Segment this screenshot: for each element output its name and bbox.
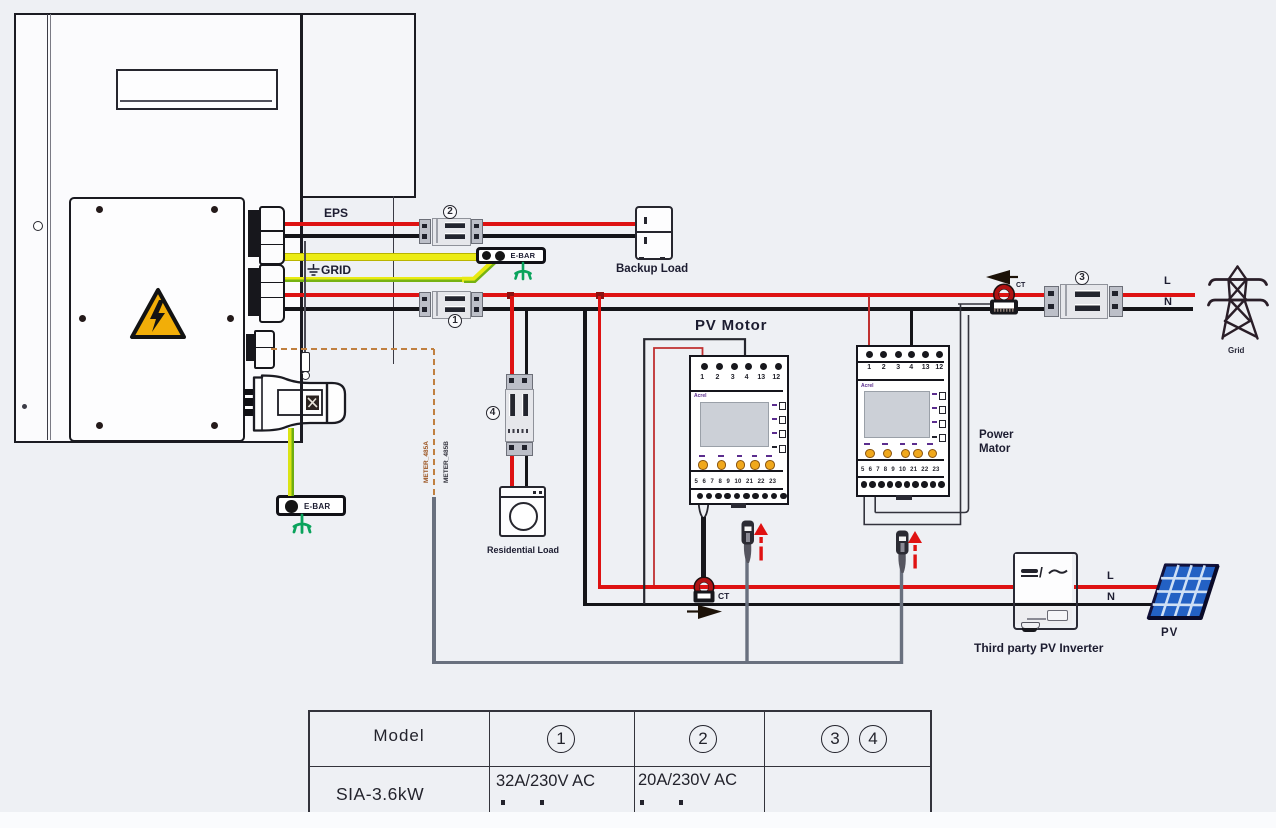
wire EPS N black segment 1 bbox=[282, 234, 421, 238]
display slot bbox=[116, 69, 278, 110]
red drop to breaker 4 bbox=[510, 296, 513, 374]
GRID port label with pe symbol bbox=[307, 264, 320, 276]
third party pv inverter bottom section fill bbox=[1015, 607, 1072, 624]
EPS port label bbox=[324, 206, 348, 220]
junction dot red B bbox=[596, 292, 604, 300]
inverter black foot bbox=[1022, 628, 1037, 632]
breaker Q2 (EPS) bbox=[419, 218, 482, 244]
pv meter loop wire black thin bbox=[643, 338, 747, 605]
wire GRID PE green-yellow diagonal up to e-bar bbox=[460, 250, 508, 286]
pv meter label bbox=[695, 317, 767, 334]
red arrow at plug 1 bbox=[753, 522, 769, 562]
third party pv inverter box bbox=[1013, 552, 1078, 630]
GRID ac connector bbox=[248, 268, 259, 316]
breaker Q1 (GRID) bbox=[419, 291, 482, 317]
wire EPS N black segment 2 to backup load bbox=[481, 234, 637, 238]
breaker Q4 (residential, vertical) bbox=[505, 374, 533, 454]
dongle connector body bbox=[252, 374, 348, 433]
junction box screws bbox=[96, 206, 103, 213]
red bottom bus pv inverter to panel bbox=[1074, 585, 1158, 589]
ground symbol at e-bar 1 bbox=[513, 263, 535, 280]
e-bar 1 bbox=[476, 247, 546, 264]
ground symbol at e-bar 2 bbox=[291, 515, 313, 534]
ct 2 label bbox=[1016, 282, 1025, 289]
black wire breaker 4 to residential load bbox=[525, 452, 529, 487]
comm wire gray bottom bus bbox=[432, 661, 903, 664]
bottom white strip bbox=[0, 812, 1276, 828]
junction box bbox=[69, 197, 245, 442]
antenna cable from eps area bbox=[304, 241, 305, 353]
meter plug 2 bbox=[892, 529, 912, 666]
inverter right edge vertical line bbox=[300, 13, 303, 441]
third party pv inverter label bbox=[974, 641, 1103, 655]
e-bar 1 label bbox=[511, 251, 536, 260]
pv L label bbox=[1107, 570, 1114, 582]
red drop B down to pv bus bbox=[598, 296, 601, 587]
inverter bottom detail rect bbox=[1047, 610, 1068, 621]
pv meter M1 bbox=[689, 355, 789, 505]
ac tilde symbol bbox=[1048, 568, 1068, 576]
power meter bottom tab bbox=[896, 495, 912, 500]
display slot inner line bbox=[120, 100, 272, 102]
grid N label bbox=[1164, 296, 1172, 308]
orange dashed comm wire vertical bbox=[433, 349, 436, 498]
antenna plug end circle bbox=[301, 371, 310, 380]
wire EPS PE yellow to e-bar bbox=[282, 253, 482, 260]
wire GRID L red segment 1 bbox=[282, 293, 421, 297]
black drop down to pv bus bbox=[583, 310, 587, 604]
wire GRID L red after breaker 3 bbox=[1121, 293, 1195, 297]
small dot left panel bottom bbox=[22, 404, 27, 409]
red wire breaker 4 to residential load bbox=[510, 452, 513, 487]
inverter bottom tab bbox=[1021, 622, 1040, 629]
wire GRID N black after breaker 3 bbox=[1121, 307, 1193, 311]
power meter ct loop wire 2 bbox=[874, 314, 970, 514]
inverter unit main face bbox=[14, 13, 303, 443]
marker circle 4 bbox=[486, 406, 500, 420]
pv meter ct cable black bbox=[701, 517, 706, 581]
comm label meter485a vertical bbox=[423, 423, 433, 483]
wire EPS L red segment 2 to backup load bbox=[481, 222, 637, 226]
grid tower bbox=[1205, 263, 1271, 343]
EPS ac connector bbox=[248, 210, 259, 257]
black bottom bus to pv panel bbox=[583, 603, 1153, 607]
comm label meter485b vertical bbox=[443, 423, 453, 483]
COM connector bbox=[246, 334, 254, 361]
conduit line below right panel bbox=[393, 196, 395, 364]
power meter tap red thin bbox=[868, 296, 870, 345]
marker circle 1 bbox=[448, 314, 462, 328]
inverter right side panel bbox=[301, 13, 416, 198]
third party pv inverter top section fill bbox=[1015, 554, 1072, 602]
grid L label bbox=[1164, 275, 1171, 287]
fridge feet bbox=[639, 257, 644, 260]
pv meter bottom V wires bbox=[694, 497, 714, 521]
antenna plug tube bbox=[301, 352, 310, 372]
ct 1 clamp bbox=[690, 576, 720, 604]
wire EPS L red segment 1 bbox=[282, 222, 421, 226]
unit edge over dongle bbox=[300, 374, 303, 441]
breaker Q3 (grid side) bbox=[1044, 284, 1122, 317]
pv meter bottom tab bbox=[731, 503, 746, 508]
e-bar 1 terminal dot 1 bbox=[482, 251, 491, 260]
pv label bbox=[1161, 627, 1178, 639]
wire GRID L red bus to breaker 3 bbox=[481, 293, 1046, 297]
grid label bbox=[1228, 346, 1244, 355]
pv N label bbox=[1107, 591, 1115, 603]
inverter bottom detail line bbox=[1027, 618, 1046, 620]
residential load label bbox=[487, 545, 559, 555]
ct 2 clamp at grid bbox=[986, 283, 1022, 317]
e-bar 2 label bbox=[304, 502, 330, 511]
dc symbol bbox=[1021, 569, 1038, 573]
slash symbol bbox=[1039, 564, 1052, 579]
inverter left side panel line bbox=[47, 14, 48, 440]
pv meter loop wire red thin bbox=[653, 347, 704, 587]
meter plug 1 bbox=[738, 519, 758, 665]
wire GRID N black segment 1 bbox=[282, 307, 421, 311]
red arrow at plug 2 bbox=[907, 530, 923, 570]
power meter label bbox=[979, 428, 1014, 456]
residential load washer bbox=[499, 486, 546, 537]
e-bar 1 terminal dot 2 bbox=[495, 251, 505, 261]
hinge circle on left panel bbox=[33, 221, 43, 231]
black drop to breaker 4 bbox=[525, 310, 529, 374]
marker circle 2 bbox=[443, 205, 457, 219]
ct 1 direction arrow bbox=[687, 604, 724, 621]
wire GRID PE green-yellow horizontal bbox=[282, 277, 468, 283]
table bbox=[308, 710, 932, 812]
power meter ct loop wire 1 bbox=[863, 303, 992, 527]
ct 2 direction arrow bbox=[985, 269, 1019, 285]
power meter M2 bbox=[856, 345, 950, 497]
orange dashed comm wire horizontal bbox=[271, 348, 434, 351]
comm wire gray vertical bbox=[432, 497, 435, 664]
power meter tap black bbox=[910, 310, 913, 345]
red bottom bus to pv inverter bbox=[598, 585, 1013, 589]
e-bar 2 terminal dot bbox=[285, 500, 298, 513]
marker circle 3 bbox=[1075, 271, 1089, 285]
wire GRID N black bus to breaker 3 bbox=[481, 307, 1046, 311]
junction dot red A bbox=[507, 292, 515, 300]
wire PE green from dongle to e-bar 2 bbox=[288, 428, 293, 496]
dongle connector black blocks bbox=[244, 389, 254, 416]
ct 1 label bbox=[718, 591, 729, 601]
warning triangle bbox=[126, 282, 192, 344]
backup load fridge bbox=[635, 206, 673, 260]
backup load label bbox=[616, 263, 688, 275]
pv panel bbox=[1143, 560, 1221, 622]
e-bar 2 bbox=[276, 495, 346, 516]
